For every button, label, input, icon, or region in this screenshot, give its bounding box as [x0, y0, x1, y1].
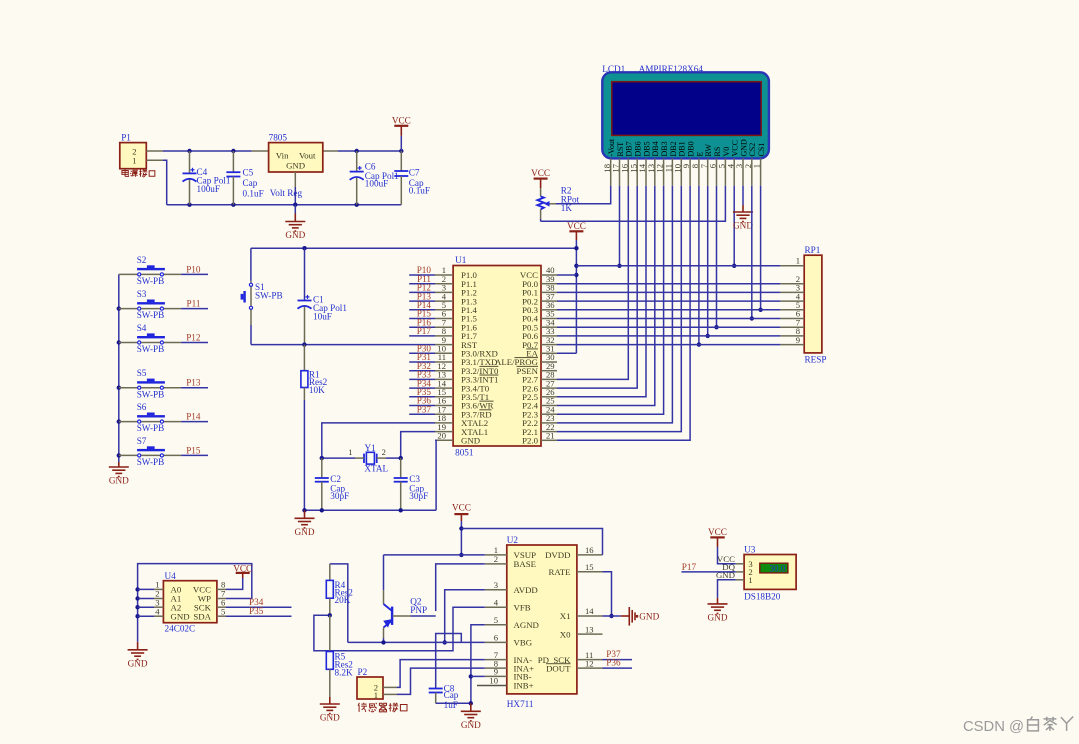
svg-text:AVDD: AVDD: [514, 585, 538, 595]
svg-text:X1: X1: [560, 611, 571, 621]
svg-text:VCC: VCC: [392, 115, 411, 125]
svg-text:AGND: AGND: [514, 620, 539, 630]
wire RPot bottom to V0: [540, 219, 542, 221]
svg-text:100uF: 100uF: [197, 184, 221, 194]
svg-text:CS2: CS2: [748, 143, 757, 157]
wire INA- to P2 pin2: [397, 660, 485, 688]
wire LCD DB7 to P2.7: [557, 186, 628, 380]
junction C5 top: [231, 149, 235, 153]
lcd LCD1 AMPIRE128X64: [602, 64, 769, 186]
svg-text:Cap: Cap: [243, 178, 258, 188]
junction R1 GND: [302, 508, 306, 512]
resistor R1: [301, 345, 328, 400]
transistor Q2 PNP: [383, 555, 436, 638]
ground GND under 7805: [285, 214, 305, 241]
svg-text:21: 21: [546, 431, 555, 441]
svg-text:VCC: VCC: [531, 168, 550, 178]
wire LCD DB4 to P2.4: [557, 186, 655, 406]
wire crystal ground rail: [305, 509, 437, 511]
resistor pack RP1 RESP: [780, 245, 826, 365]
junction C6 bottom: [355, 203, 359, 207]
svg-text:DB3: DB3: [660, 141, 669, 156]
wire net P15: [181, 454, 208, 456]
svg-text:7805: 7805: [269, 133, 288, 143]
capacitor C6: [350, 151, 399, 205]
wire net P10 at U1: [409, 274, 435, 276]
watermark CSDN: [963, 717, 1073, 736]
svg-text:1: 1: [374, 690, 378, 700]
wire LCD -Vout to RPot wiper: [556, 186, 611, 204]
junction U4 pin rail: [135, 596, 139, 600]
svg-text:P17: P17: [417, 326, 432, 336]
connector P1: [120, 133, 163, 169]
svg-text:0.1uF: 0.1uF: [409, 185, 430, 195]
ground GND U4: [128, 642, 148, 669]
wire LCD GND pin: [742, 186, 744, 205]
junction LCD RW: [706, 334, 710, 338]
junction LCD E: [697, 342, 701, 346]
svg-text:X0: X0: [560, 629, 571, 639]
switch S2: [119, 255, 181, 286]
svg-text:P12: P12: [186, 333, 201, 343]
junction Q2 rail: [381, 640, 385, 644]
power VCC U2: [452, 502, 471, 521]
svg-text:30pF: 30pF: [409, 491, 428, 501]
svg-text:4: 4: [494, 598, 499, 608]
switch S7: [119, 436, 181, 467]
wire LCD DB5 to P2.5: [557, 186, 646, 397]
wire net P32 at U1: [409, 370, 435, 372]
wire P0.0 to RP1 pin 2: [557, 283, 780, 285]
svg-text:DVDD: DVDD: [545, 550, 570, 560]
wire buttons ground rail: [118, 274, 120, 462]
wire INA+ to P2 pin1: [397, 668, 485, 694]
wire LCD E to P0.8: [698, 186, 700, 345]
ground GND crystal: [295, 510, 315, 537]
wire P0.1 to RP1 pin 3: [557, 291, 780, 293]
svg-text:DB2: DB2: [669, 141, 678, 156]
junction LCD CS2: [750, 316, 754, 320]
wire net P11: [181, 308, 208, 310]
ground GND LCD: [733, 205, 753, 231]
svg-text:VCC: VCC: [452, 502, 471, 512]
svg-text:1: 1: [748, 575, 752, 585]
svg-text:GND: GND: [733, 221, 753, 231]
svg-text:S3: S3: [137, 289, 147, 299]
svg-text:GND: GND: [461, 436, 480, 446]
wire EA to VCC stem: [557, 352, 576, 354]
svg-text:RST: RST: [616, 142, 625, 157]
svg-text:Vout: Vout: [299, 151, 316, 161]
ground GND U3: [708, 598, 728, 623]
wire LCD CS2 to P0.4: [751, 186, 753, 319]
wire U4 address pins tied: [138, 564, 252, 642]
wire P1 pin1 down to bottom rail: [163, 160, 167, 205]
wire U4 left pin: [138, 598, 154, 600]
ground GND X1 sideways: [621, 607, 660, 626]
wire net P35 at U1: [409, 396, 435, 398]
wire U4 left pin: [138, 606, 154, 608]
wire P0.7 to RP1 pin 9: [557, 344, 780, 346]
svg-text:BASE: BASE: [514, 559, 537, 569]
wire U3 GND down: [718, 580, 736, 598]
wire XTAL1 to crystal: [401, 432, 435, 459]
svg-text:U4: U4: [165, 571, 177, 581]
svg-text:2: 2: [382, 447, 386, 457]
svg-text:12: 12: [585, 658, 594, 668]
svg-text:1: 1: [796, 256, 800, 266]
power VCC U1: [567, 221, 586, 240]
junction VCC VSUP: [459, 553, 463, 557]
svg-text:P10: P10: [186, 264, 201, 274]
svg-text:GND: GND: [171, 611, 190, 621]
svg-text:DS18B20: DS18B20: [744, 592, 781, 602]
wire LCD DB3 to P2.3: [557, 186, 664, 415]
wire net P31 at U1: [409, 361, 435, 363]
svg-text:1K: 1K: [561, 203, 573, 213]
svg-text:RATE: RATE: [549, 567, 571, 577]
wire net P12 at U1: [409, 291, 435, 293]
svg-text:P11: P11: [187, 299, 201, 309]
svg-text:GND: GND: [286, 160, 305, 170]
wire VCC rail to S1 and C1: [251, 247, 577, 249]
junction R4 R5 VFB: [328, 613, 332, 617]
power VCC U3: [708, 527, 727, 547]
capacitor C4: [183, 151, 231, 205]
svg-text:DB4: DB4: [651, 141, 660, 156]
svg-text:GND: GND: [285, 230, 305, 240]
junction C3 bottom: [399, 508, 403, 512]
junction VCC pin40: [574, 273, 578, 277]
svg-text:DB5: DB5: [642, 141, 651, 156]
junction AGND INB-: [469, 674, 473, 678]
crystal Y1: [348, 443, 388, 474]
svg-text:DB6: DB6: [634, 141, 643, 156]
wire SCK net P34: [226, 606, 292, 608]
wire PD_SCK net P37: [603, 659, 633, 661]
junction C4 top: [187, 149, 191, 153]
switch S6: [119, 402, 181, 433]
wire LCD DB0 to P2.0: [557, 186, 690, 441]
svg-text:P37: P37: [417, 404, 432, 414]
ground GND R5: [320, 697, 340, 723]
wire RST net rail: [251, 344, 435, 346]
svg-text:20K: 20K: [335, 595, 351, 605]
wire net P17 to DQ: [682, 571, 736, 573]
wire LCD RS to P0.6: [716, 186, 718, 328]
svg-text:C3: C3: [409, 474, 420, 484]
svg-text:Vin: Vin: [276, 151, 289, 161]
svg-text:P14: P14: [186, 412, 201, 422]
svg-text:CSDN @: CSDN @: [963, 719, 1024, 735]
wire LCD DB1 to P2.1: [557, 186, 681, 432]
svg-text:SW-PB: SW-PB: [137, 389, 165, 399]
junction XTAL2 C2: [320, 456, 324, 460]
junction VCC DVDD wire: [459, 526, 463, 530]
wire VSUP to Q2 emitter: [384, 554, 485, 556]
junction 7805 GND: [293, 203, 297, 207]
capacitor C3: [394, 458, 429, 510]
wire P0.4 to RP1 pin 6: [557, 318, 780, 320]
svg-text:XTAL: XTAL: [364, 464, 388, 474]
switch S3: [119, 289, 181, 320]
svg-text:P2.0: P2.0: [522, 436, 538, 446]
svg-text:U1: U1: [455, 255, 467, 265]
ic U2 HX711: [477, 535, 603, 709]
junction rail S4: [117, 340, 121, 344]
svg-text:P15: P15: [186, 445, 201, 455]
svg-text:P35: P35: [249, 606, 264, 616]
svg-text:1: 1: [348, 447, 352, 457]
svg-text:S5: S5: [137, 368, 147, 378]
junction XTAL1 C3: [399, 456, 403, 460]
power VCC top: [392, 115, 411, 151]
wire net P13: [181, 387, 208, 389]
svg-text:SW-PB: SW-PB: [137, 344, 165, 354]
svg-text:100uF: 100uF: [365, 179, 389, 189]
wire S1 bottom to RST rail: [250, 325, 252, 345]
resistor R5: [326, 615, 353, 697]
wire BASE to Q2 base: [436, 564, 485, 611]
wire net P10: [181, 273, 208, 275]
junction RATE X1: [609, 614, 613, 618]
wire X1 to ground: [603, 615, 621, 617]
svg-text:DOUT: DOUT: [546, 663, 571, 673]
wire INB- to AGND: [471, 675, 485, 677]
svg-text:GND: GND: [320, 713, 340, 723]
ic U3 DS18B20: [716, 545, 796, 602]
wire DOUT net P36: [603, 667, 633, 669]
power VCC RPot: [531, 168, 550, 196]
wire R4 top rail: [330, 564, 348, 643]
junction AVDD rail: [443, 640, 447, 644]
svg-text:Cap: Cap: [444, 690, 459, 700]
junction C8 GND: [469, 701, 473, 705]
svg-text:INB+: INB+: [514, 681, 534, 691]
capacitor C1: [298, 248, 348, 344]
svg-text:8.2K: 8.2K: [335, 667, 353, 677]
svg-text:30.0: 30.0: [769, 563, 785, 573]
svg-text:GND: GND: [461, 720, 481, 730]
potentiometer R2 RPot: [537, 185, 579, 219]
svg-text:GND: GND: [295, 527, 315, 537]
switch S5: [119, 368, 181, 399]
wire LCD CS1 to P0.3: [760, 186, 762, 310]
wire net P13 at U1: [409, 300, 435, 302]
switch S4: [119, 323, 181, 354]
wire C8 bottom to GND: [436, 702, 471, 704]
junction LCD VCC: [732, 264, 736, 268]
wire 7805 GND to rail: [294, 187, 296, 205]
svg-text:V0: V0: [722, 147, 731, 157]
wire crystal pin1: [322, 457, 355, 459]
wire VBG AVDD rail: [348, 641, 485, 643]
junction RST node: [302, 342, 306, 346]
wire VCC to U3: [718, 547, 736, 564]
svg-text:4: 4: [155, 606, 160, 616]
label 传感器接口: [358, 703, 407, 712]
svg-text:SW-PB: SW-PB: [137, 310, 165, 320]
svg-text:-Vout: -Vout: [607, 138, 616, 156]
svg-text:C7: C7: [409, 168, 420, 178]
wire LCD RST to VCC rail: [619, 186, 621, 266]
wire net P30 at U1: [409, 352, 435, 354]
wire net P14: [181, 421, 208, 423]
wire net P36 at U1: [409, 405, 435, 407]
svg-text:DB0: DB0: [687, 141, 696, 156]
ic U4 24C02C: [154, 571, 226, 634]
capacitor C8: [429, 683, 459, 710]
svg-text:C5: C5: [243, 168, 254, 178]
svg-text:RS: RS: [713, 147, 722, 157]
connector P2: [357, 667, 397, 700]
capacitor C2: [315, 458, 349, 510]
svg-text:GND: GND: [128, 658, 148, 668]
svg-text:S6: S6: [137, 402, 147, 412]
wire 7805 Vout to VCC: [338, 150, 401, 152]
svg-text:U2: U2: [507, 535, 519, 545]
svg-text:10: 10: [489, 676, 498, 686]
wire U4 left pin: [138, 615, 154, 617]
junction rail S5: [117, 386, 121, 390]
power VCC U4: [233, 564, 252, 579]
svg-text:RW: RW: [704, 144, 713, 157]
svg-text:P17: P17: [682, 562, 697, 572]
svg-text:Volt Reg: Volt Reg: [270, 188, 303, 198]
svg-text:2: 2: [494, 554, 498, 564]
wire U1 GND down: [435, 440, 436, 510]
wire LCD DB2 to P2.2: [557, 186, 672, 423]
wire net P33 at U1: [409, 378, 435, 380]
svg-text:15: 15: [585, 562, 594, 572]
svg-text:GND: GND: [739, 139, 748, 157]
wire LCD DB6 to P2.6: [557, 186, 637, 388]
svg-text:1uF: 1uF: [444, 700, 458, 710]
svg-text:E: E: [695, 152, 704, 157]
wire net P15 at U1: [409, 318, 435, 320]
junction VCC net rail: [574, 264, 578, 268]
svg-text:P13: P13: [186, 378, 201, 388]
wire P1 pin2 to 7805 Vin: [163, 150, 252, 152]
wire XTAL2 to crystal: [322, 423, 435, 458]
junction C7 VCC node: [399, 149, 403, 153]
svg-text:HX711: HX711: [507, 699, 534, 709]
wire VCC stem to VSUP: [460, 521, 462, 555]
svg-text:GND: GND: [109, 476, 129, 486]
wire VCC net rail to RP1: [576, 265, 780, 267]
svg-text:VFB: VFB: [514, 603, 531, 613]
junction U4 pin rail: [135, 587, 139, 591]
regulator U 7805: [252, 133, 338, 188]
junction rail S7: [117, 453, 121, 457]
wire bottom ground rail: [167, 204, 402, 206]
svg-text:U3: U3: [744, 545, 756, 555]
svg-text:S2: S2: [137, 255, 147, 265]
svg-text:P2: P2: [358, 667, 368, 677]
svg-text:9: 9: [796, 335, 800, 345]
junction C5 bottom: [231, 203, 235, 207]
svg-text:DB1: DB1: [678, 141, 687, 156]
wire crystal pin2: [386, 457, 401, 459]
wire SDA net P35: [226, 615, 292, 617]
wire P0.2 to RP1 pin 4: [557, 300, 780, 302]
svg-text:SW-PB: SW-PB: [137, 423, 165, 433]
junction C1 top: [302, 246, 306, 250]
wire P0.5 to RP1 pin 7: [557, 326, 780, 328]
svg-text:VCC: VCC: [708, 527, 727, 537]
capacitor C7: [394, 151, 430, 205]
wire VFB left: [314, 607, 485, 651]
wire U4 left pin: [138, 588, 154, 590]
wire Q2 collector to rail: [383, 638, 385, 642]
svg-text:24C02C: 24C02C: [165, 624, 196, 634]
svg-text:8051: 8051: [455, 448, 474, 458]
junction U4 pin rail: [135, 605, 139, 609]
svg-text:VCC: VCC: [567, 221, 586, 231]
svg-text:SW-PB: SW-PB: [137, 276, 165, 286]
svg-text:DB7: DB7: [625, 141, 634, 156]
svg-text:20: 20: [437, 431, 446, 441]
wire net P37 at U1: [409, 413, 435, 415]
wire VCC to DVDD: [461, 529, 602, 555]
wire net P14 at U1: [409, 309, 435, 311]
wire AGND jog to C8: [436, 634, 462, 689]
svg-text:30pF: 30pF: [330, 491, 349, 501]
wire P0.6 to RP1 pin 8: [557, 335, 780, 337]
svg-text:RP1: RP1: [805, 245, 821, 255]
svg-text:S4: S4: [137, 323, 147, 333]
svg-text:SW-PB: SW-PB: [137, 457, 165, 467]
junction rail S6: [117, 419, 121, 423]
svg-text:3: 3: [494, 580, 498, 590]
svg-text:5: 5: [494, 615, 498, 625]
svg-text:SDA: SDA: [193, 611, 211, 621]
label 电源接口: [122, 169, 155, 177]
svg-text:RESP: RESP: [805, 355, 827, 365]
wire net P34 at U1: [409, 387, 435, 389]
junction LCD RS: [714, 325, 718, 329]
wire P0.3 to RP1 pin 5: [557, 309, 780, 311]
svg-text:CS1: CS1: [757, 143, 766, 157]
wire rail to GND symbol: [294, 205, 296, 214]
wire RATE down to X1: [603, 572, 612, 616]
switch S1: [241, 248, 283, 325]
svg-text:0.1uF: 0.1uF: [243, 189, 264, 199]
junction LCD CS1: [758, 308, 762, 312]
wire net P11 at U1: [409, 283, 435, 285]
wire LCD VCC pin: [733, 186, 735, 266]
resistor R4: [326, 564, 353, 615]
wire AVDD left: [445, 590, 485, 643]
svg-text:GND: GND: [708, 612, 728, 622]
svg-text:1: 1: [752, 164, 762, 168]
wire LCD RW to P0.7: [707, 186, 709, 336]
svg-text:6: 6: [494, 633, 499, 643]
wire net P12: [181, 342, 208, 344]
svg-text:14: 14: [585, 606, 594, 616]
ground GND C8: [461, 703, 481, 730]
svg-text:PNP: PNP: [410, 605, 427, 615]
wire VCC stem down to EA: [575, 240, 577, 353]
wire R1 bottom to crystal ground rail: [303, 400, 305, 510]
wire LCD V0 to RPot bottom: [541, 186, 726, 222]
ic U1 8051: [435, 255, 557, 458]
svg-text:10uF: 10uF: [313, 311, 332, 321]
capacitor C5: [226, 151, 263, 205]
wire U4 VCC pin: [226, 578, 243, 589]
junction U4 pin rail: [135, 614, 139, 618]
svg-text:1: 1: [132, 156, 136, 166]
